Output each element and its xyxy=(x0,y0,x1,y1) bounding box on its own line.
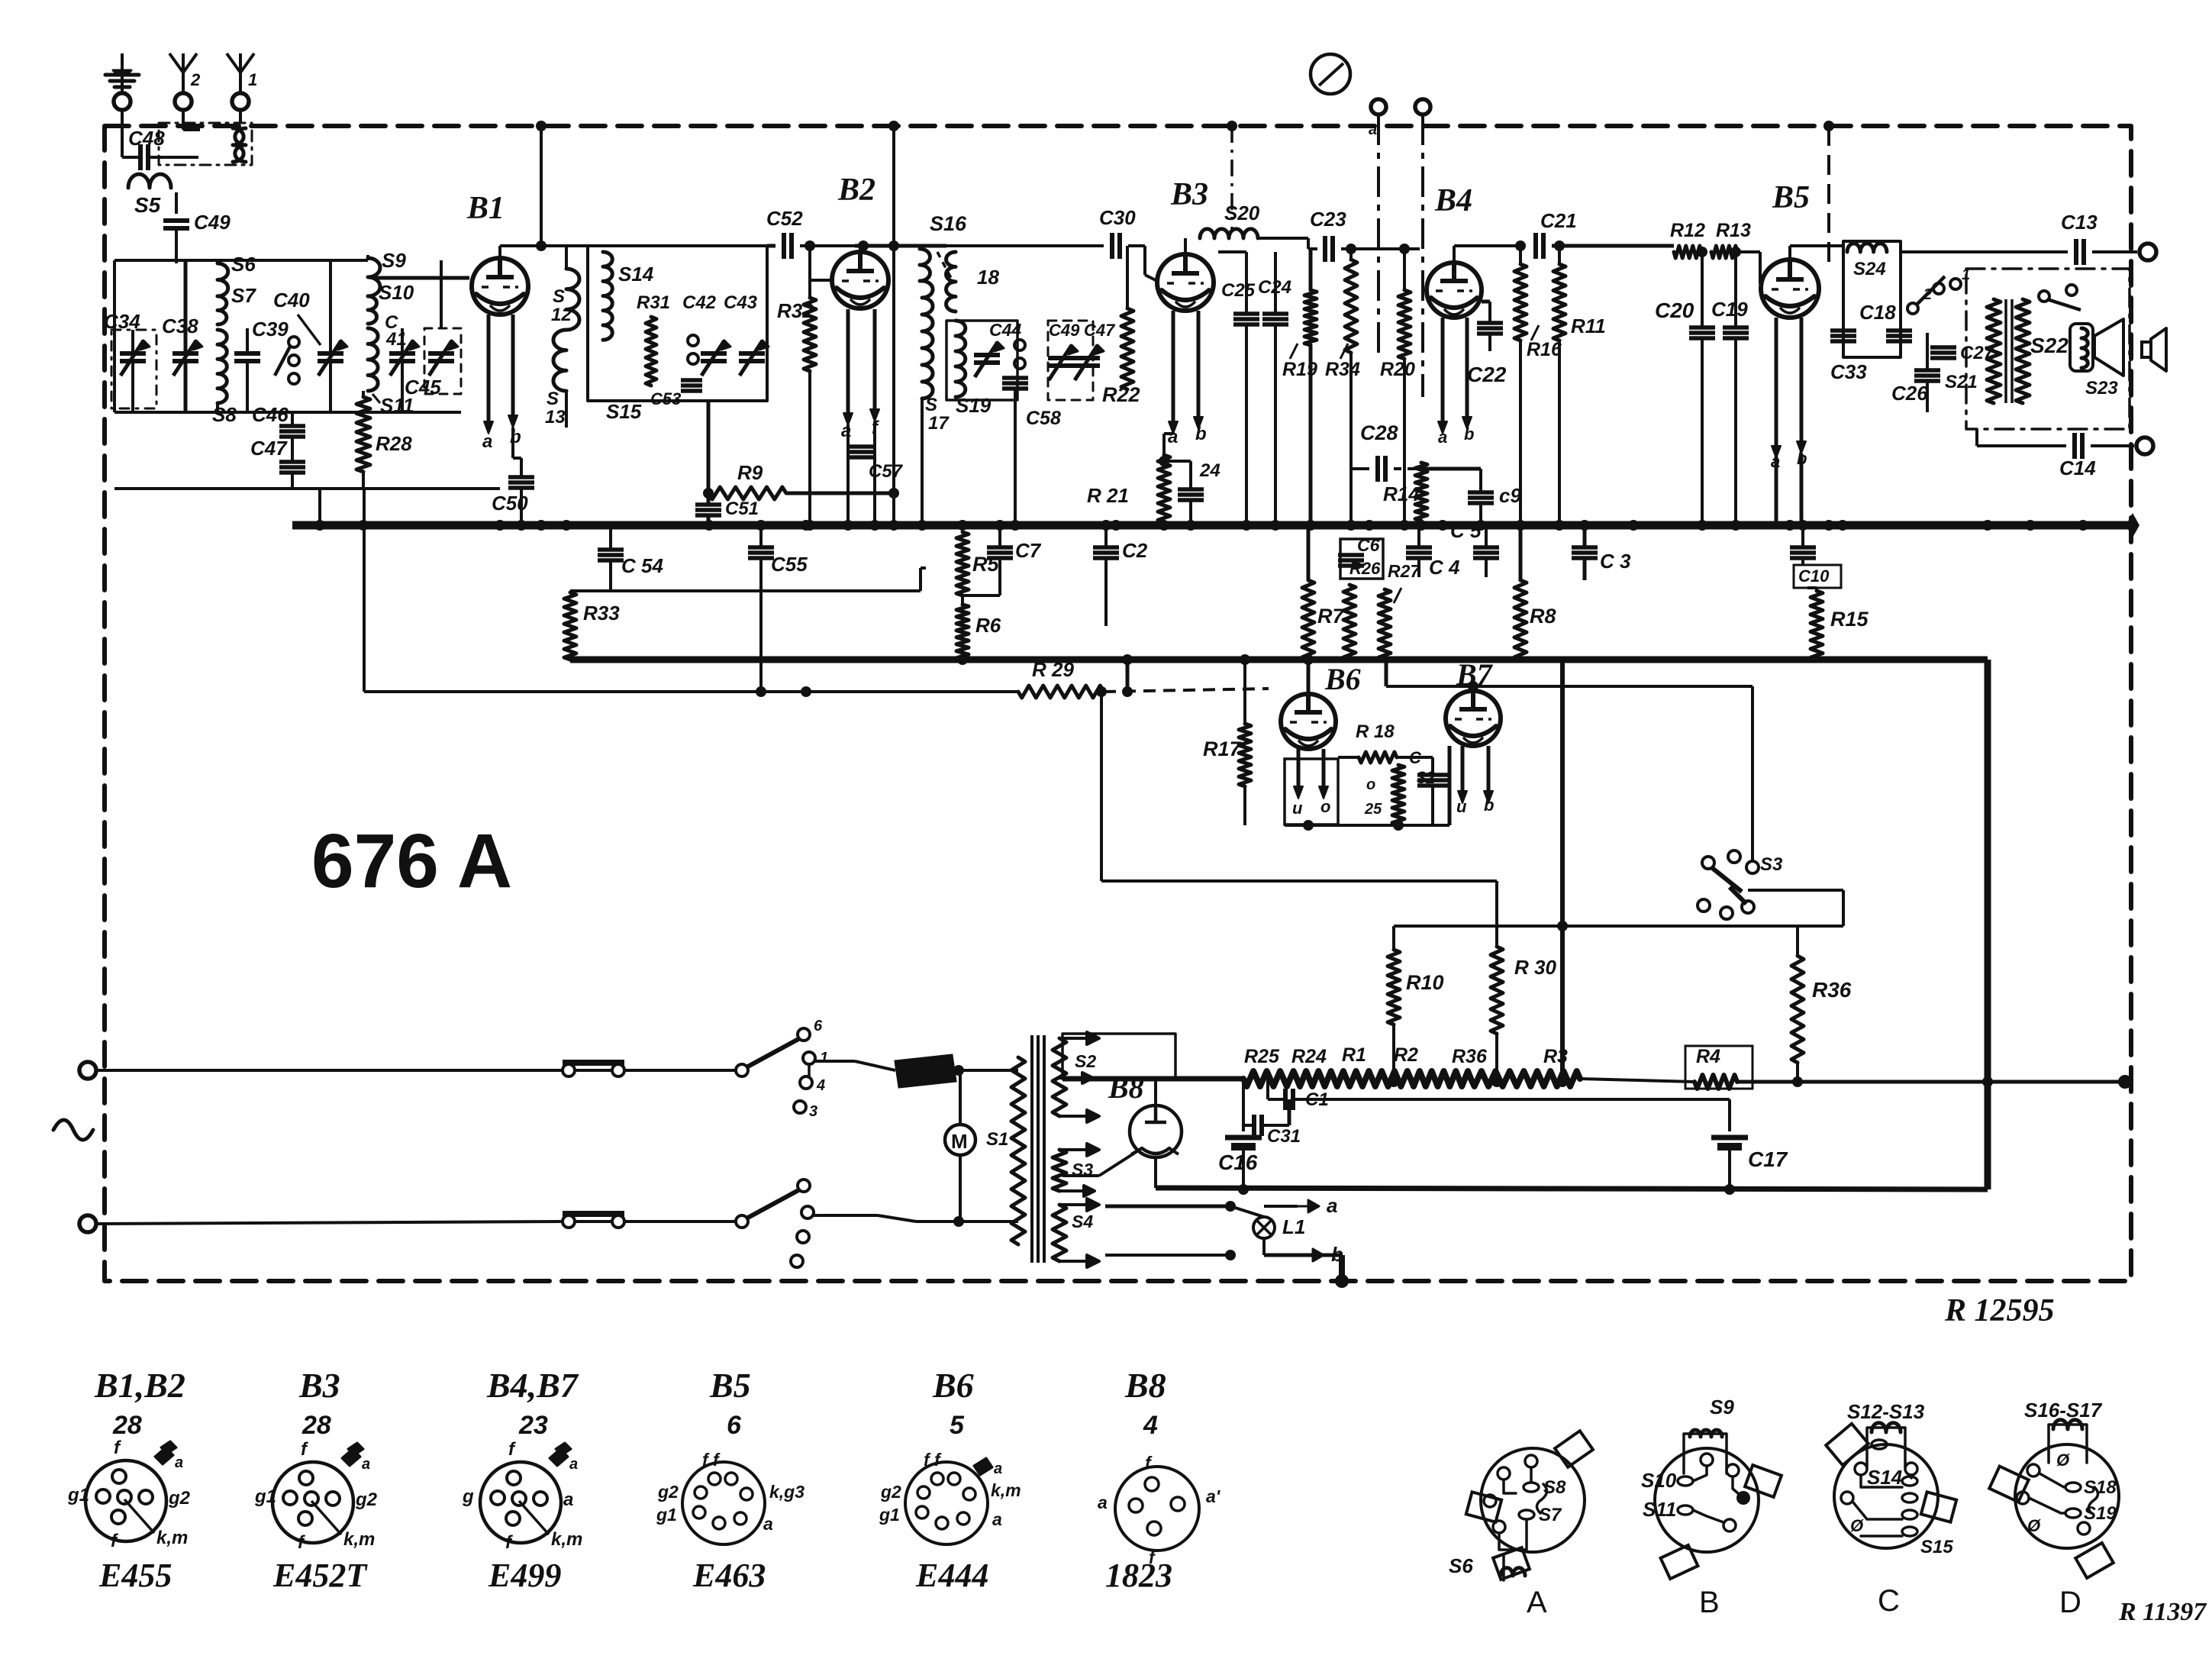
svg-text:5: 5 xyxy=(950,1411,965,1440)
capacitor C53 xyxy=(681,378,702,382)
B6 socket box xyxy=(1285,759,1338,825)
resistor R4 xyxy=(1694,1075,1737,1089)
svg-text:R 18: R 18 xyxy=(1356,721,1395,742)
svg-text:S23: S23 xyxy=(2085,378,2118,399)
dashed trimmer box C49 C47 xyxy=(1048,321,1093,400)
svg-text:Ø: Ø xyxy=(1850,1516,1864,1535)
svg-text:k,m: k,m xyxy=(991,1480,1021,1500)
capacitor C33 xyxy=(1830,328,1856,333)
svg-text:B1,B2: B1,B2 xyxy=(94,1366,185,1405)
svg-text:3: 3 xyxy=(809,1103,817,1120)
wire down from R29 xyxy=(1100,692,1103,881)
svg-text:S24: S24 xyxy=(1853,259,1886,279)
variable capacitor C38 xyxy=(173,351,198,356)
svg-text:S19: S19 xyxy=(956,394,992,417)
coil S11 xyxy=(368,328,378,391)
wire A2 down xyxy=(182,110,185,130)
svg-text:b: b xyxy=(1464,424,1474,444)
output IF box S24 xyxy=(1843,241,1901,357)
svg-text:R 29: R 29 xyxy=(1032,658,1074,681)
resistor R20 xyxy=(1398,290,1411,359)
svg-text:R33: R33 xyxy=(583,602,620,624)
svg-text:R 30: R 30 xyxy=(1514,956,1556,979)
B4 heater lead a xyxy=(1441,318,1445,424)
svg-text:S9: S9 xyxy=(382,249,406,272)
svg-text:S9: S9 xyxy=(1710,1396,1734,1418)
wire C48 to antenna coupling unit xyxy=(148,156,198,159)
capacitor C58 xyxy=(1002,376,1028,380)
wire R4 to border xyxy=(1737,1080,2125,1084)
svg-text:B5: B5 xyxy=(709,1366,751,1405)
wire switch2 to transformer xyxy=(812,1214,878,1217)
svg-text:C38: C38 xyxy=(162,315,198,337)
svg-text:g2: g2 xyxy=(657,1482,679,1502)
svg-text:C50: C50 xyxy=(492,492,528,515)
capacitor C21 xyxy=(1533,233,1538,259)
svg-text:R25: R25 xyxy=(1244,1046,1280,1067)
svg-text:a: a xyxy=(563,1489,573,1510)
capacitor C7 xyxy=(987,545,1013,550)
mains wire bottom xyxy=(96,1221,563,1224)
svg-text:C25: C25 xyxy=(1221,280,1256,301)
fuse bottom xyxy=(563,1211,624,1217)
mains wire top xyxy=(96,1069,563,1072)
svg-text:R22: R22 xyxy=(1102,383,1140,406)
svg-text:g2: g2 xyxy=(355,1489,378,1510)
resistor R34 xyxy=(1345,260,1357,353)
svg-text:S14: S14 xyxy=(618,263,654,286)
switch in IF box xyxy=(688,335,698,346)
svg-text:u: u xyxy=(1456,797,1467,816)
coil S12 xyxy=(566,269,579,330)
svg-text:R10: R10 xyxy=(1406,971,1444,994)
resistor R13 xyxy=(1711,246,1737,258)
wire B3 anode xyxy=(1184,238,1187,254)
coil S20 xyxy=(1200,229,1258,238)
svg-text:R4: R4 xyxy=(1696,1046,1720,1067)
svg-text:C34: C34 xyxy=(104,310,140,333)
dial lamp L1 xyxy=(1253,1217,1275,1238)
ballast resistor xyxy=(895,1055,956,1087)
rectifier supply box xyxy=(1062,1034,1175,1079)
capacitor C27 xyxy=(1930,345,1956,350)
switch S3 xyxy=(1751,686,1754,861)
svg-text:C17: C17 xyxy=(1748,1147,1788,1171)
wafer A contacts xyxy=(1498,1467,1510,1480)
svg-text:a: a xyxy=(175,1454,183,1471)
svg-text:R28: R28 xyxy=(376,432,412,455)
antenna coupling coil xyxy=(233,128,243,162)
wire B2 grid xyxy=(810,279,832,282)
svg-text:E499: E499 xyxy=(488,1557,561,1594)
power transformer secondary S3 xyxy=(1053,1150,1066,1191)
dashed drop at B5 xyxy=(1827,126,1830,267)
socket B8 outline xyxy=(1115,1467,1199,1551)
resistor R32 xyxy=(804,298,816,371)
capacitor C57 xyxy=(846,424,850,525)
capacitor C17 electrolytic xyxy=(1728,1113,1731,1131)
svg-text:C20: C20 xyxy=(1655,299,1694,322)
switch S near B5 xyxy=(1916,276,1945,305)
socket B4B7 pins xyxy=(507,1471,521,1485)
wire fuse to switch top xyxy=(624,1069,737,1072)
resistor R17 xyxy=(1239,724,1251,786)
svg-text:S1: S1 xyxy=(986,1129,1008,1150)
svg-text:13: 13 xyxy=(545,407,566,428)
svg-text:S3: S3 xyxy=(1760,854,1783,875)
capacitor C52 xyxy=(782,233,786,259)
svg-text:2: 2 xyxy=(190,70,201,89)
wafer C contacts xyxy=(1855,1463,1867,1475)
coil S13 xyxy=(553,330,566,391)
B4 anode wire xyxy=(1453,246,1456,263)
svg-text:S14: S14 xyxy=(1867,1466,1903,1489)
B2 heater lead a xyxy=(846,309,850,416)
variable capacitor C45 (dashed) xyxy=(428,351,454,356)
resistor R36 xyxy=(1791,956,1804,1063)
svg-text:4: 4 xyxy=(1143,1411,1158,1440)
svg-text:C53: C53 xyxy=(650,389,681,408)
HT distribution bus xyxy=(292,521,2133,530)
resistor R8 xyxy=(1514,580,1527,660)
svg-text:a: a xyxy=(994,1460,1002,1477)
svg-text:R6: R6 xyxy=(975,614,1001,637)
capacitor C10 xyxy=(1790,545,1816,550)
resistor R22 xyxy=(1121,308,1133,389)
B1 heater lead a xyxy=(487,315,491,424)
svg-text:R2: R2 xyxy=(1394,1044,1418,1066)
svg-text:S16: S16 xyxy=(930,212,967,235)
svg-text:C52: C52 xyxy=(766,207,803,230)
svg-text:C47: C47 xyxy=(250,437,288,460)
svg-text:R16: R16 xyxy=(1527,339,1562,360)
svg-text:R36: R36 xyxy=(1812,978,1852,1002)
svg-text:B2: B2 xyxy=(837,173,875,208)
svg-text:C2: C2 xyxy=(1122,539,1148,562)
svg-text:R20: R20 xyxy=(1380,359,1415,380)
svg-text:A: A xyxy=(1527,1586,1547,1619)
svg-text:R26: R26 xyxy=(1349,559,1381,578)
svg-text:E444: E444 xyxy=(915,1557,988,1594)
wafer C outline xyxy=(1834,1444,1938,1548)
wafer B outline xyxy=(1655,1448,1759,1552)
svg-text:S16-S17: S16-S17 xyxy=(2024,1399,2103,1422)
socket B4B7 anode tag xyxy=(550,1449,568,1466)
svg-text:a: a xyxy=(362,1456,370,1473)
svg-text:S8: S8 xyxy=(212,403,237,426)
speaker cone S23 xyxy=(2094,319,2123,376)
ground terminal xyxy=(114,93,131,110)
svg-text:C: C xyxy=(1878,1584,1900,1618)
B7 heater lead b xyxy=(1487,746,1491,794)
resistor R30 xyxy=(1491,947,1503,1034)
svg-text:B1: B1 xyxy=(466,191,505,226)
B6 heater lead u xyxy=(1297,749,1301,789)
capacitor C16 electrolytic xyxy=(1242,1079,1245,1131)
coil S24 xyxy=(1847,244,1887,252)
svg-text:b: b xyxy=(1195,424,1207,444)
wire B7 anode xyxy=(1472,686,1475,691)
wire C49 down to RF block xyxy=(175,230,178,260)
capacitor C22 xyxy=(1477,321,1503,325)
capacitor C30 xyxy=(1110,233,1114,259)
B7 heater lead u xyxy=(1461,746,1465,794)
svg-text:4: 4 xyxy=(816,1077,825,1094)
svg-text:B6: B6 xyxy=(932,1366,974,1405)
resistor R5 xyxy=(956,532,969,595)
wire HT feed down to volume chain xyxy=(1560,660,1565,1082)
socket B3 pins xyxy=(299,1471,313,1485)
svg-text:B4,B7: B4,B7 xyxy=(486,1366,579,1405)
dash-dot drop from border to S20 xyxy=(1230,126,1233,231)
svg-text:R15: R15 xyxy=(1830,608,1869,631)
resistor R28 xyxy=(356,397,370,472)
variable capacitor C42 xyxy=(701,351,727,356)
svg-text:S: S xyxy=(553,286,565,307)
svg-text:R 21: R 21 xyxy=(1087,484,1129,507)
power transformer core xyxy=(1030,1035,1033,1263)
IF transformer box S14 S15 xyxy=(588,246,767,401)
svg-text:a: a xyxy=(763,1514,773,1534)
capacitor C3 xyxy=(1572,545,1598,550)
variable capacitor C49b xyxy=(1048,356,1074,360)
capacitor C19 xyxy=(1723,325,1749,330)
svg-text:C43: C43 xyxy=(724,292,758,313)
wire ground to C48 xyxy=(121,110,124,157)
svg-text:C13: C13 xyxy=(2061,211,2098,234)
socket B6 anode tag xyxy=(974,1458,992,1475)
svg-text:R8: R8 xyxy=(1530,605,1556,628)
svg-text:k,g3: k,g3 xyxy=(769,1482,805,1502)
svg-text:R9: R9 xyxy=(737,461,763,484)
capacitor C54 xyxy=(598,547,624,552)
coil S18 xyxy=(946,252,956,311)
antenna A2 terminal xyxy=(175,93,192,110)
wires around output box xyxy=(1901,250,1966,253)
pickup leads down xyxy=(1377,115,1380,359)
resistor R6 xyxy=(956,605,969,660)
pickup terminal b xyxy=(1415,99,1430,115)
svg-text:g1: g1 xyxy=(67,1485,89,1505)
coil S17 xyxy=(922,281,933,399)
wafer D wires xyxy=(2039,1473,2065,1487)
socket B4B7 outline xyxy=(480,1462,561,1543)
svg-text:C26: C26 xyxy=(1891,382,1928,405)
variable capacitor C47b xyxy=(1074,356,1100,360)
svg-text:C 4: C 4 xyxy=(1429,556,1460,579)
svg-text:676 A: 676 A xyxy=(311,818,512,904)
socket B5 pins xyxy=(708,1473,721,1485)
capacitor C49 xyxy=(163,218,189,223)
wafer A switch wires xyxy=(1504,1480,1516,1493)
chassis dashed border xyxy=(105,126,2131,1281)
mains switch bottom xyxy=(736,1215,748,1228)
antenna coupling transformer box xyxy=(159,123,252,165)
svg-text:S11: S11 xyxy=(1643,1498,1676,1521)
svg-text:a: a xyxy=(569,1456,578,1473)
coil S19 xyxy=(956,321,966,397)
resistor R21 xyxy=(1158,455,1170,522)
resistor R35 xyxy=(1392,765,1404,825)
coil S10 xyxy=(368,296,377,324)
wire AVC rail xyxy=(364,690,1018,693)
resistor R15 xyxy=(1811,591,1823,660)
switch S22 top xyxy=(2039,291,2049,302)
svg-text:23: 23 xyxy=(518,1411,548,1440)
svg-text:S21: S21 xyxy=(1945,372,1978,392)
coil S8 xyxy=(218,330,227,403)
svg-text:B5: B5 xyxy=(1772,180,1810,215)
svg-text:R24: R24 xyxy=(1291,1046,1327,1067)
thick vertical right xyxy=(1985,660,1991,1189)
svg-text:S: S xyxy=(547,389,559,409)
wafer B contacts xyxy=(1701,1454,1713,1466)
svg-text:g1: g1 xyxy=(879,1505,900,1525)
B2 heater lead f xyxy=(873,309,877,412)
variable capacitor of C40 xyxy=(318,351,343,356)
wire B1 grid from S9 xyxy=(376,276,469,280)
svg-text:S7: S7 xyxy=(231,284,256,307)
IF2 box xyxy=(946,321,1017,400)
speaker icon right xyxy=(2151,328,2166,371)
svg-text:S12-S13: S12-S13 xyxy=(1847,1400,1925,1423)
mains sine symbol xyxy=(53,1120,93,1140)
svg-text:C51: C51 xyxy=(725,499,759,519)
wire S5 to C49 xyxy=(175,192,178,214)
socket B8 pins xyxy=(1145,1477,1159,1491)
svg-text:17: 17 xyxy=(928,413,950,434)
svg-text:S4: S4 xyxy=(1072,1212,1093,1231)
capacitor C9 xyxy=(1468,490,1494,495)
svg-text:a': a' xyxy=(1206,1486,1221,1506)
svg-text:a: a xyxy=(1369,121,1377,138)
capacitor C31 xyxy=(1252,1115,1256,1136)
wire S8 bottom to rail xyxy=(216,403,219,412)
svg-text:a: a xyxy=(1098,1493,1108,1512)
antenna A1 symbol xyxy=(239,69,242,93)
trimmer capacitor C39 xyxy=(234,351,260,356)
HT+ heavy wire to potentiometer chain xyxy=(1062,1076,1243,1082)
screen bus (thick) xyxy=(570,657,1988,663)
svg-text:b: b xyxy=(1484,796,1494,815)
wire from top border to B1 xyxy=(536,121,547,131)
resistor R11 xyxy=(1553,264,1565,340)
svg-text:B: B xyxy=(1699,1586,1720,1619)
B4 heater lead b xyxy=(1466,318,1469,420)
coil S7 xyxy=(218,296,227,324)
potentiometer chain R25 R24 R1 R2 R36 R3 xyxy=(1243,1071,1297,1086)
svg-text:C30: C30 xyxy=(1099,206,1136,229)
mains switch top xyxy=(736,1064,748,1076)
B3 heater lead a xyxy=(1172,311,1175,424)
coil S6 xyxy=(218,263,228,296)
wafer A outline xyxy=(1481,1448,1585,1552)
dashed AVC continuation xyxy=(1104,689,1269,692)
S2 taps xyxy=(1059,1032,1099,1044)
output transformer dash-dot box xyxy=(1966,269,2130,429)
svg-text:C49: C49 xyxy=(194,211,231,234)
coil S5 xyxy=(128,174,171,188)
resistor R29 xyxy=(1018,686,1104,698)
svg-text:18: 18 xyxy=(977,266,999,289)
svg-text:R7: R7 xyxy=(1317,605,1345,628)
svg-text:C46: C46 xyxy=(252,403,289,426)
socket B6 outline xyxy=(905,1462,988,1544)
wire switch to ballast xyxy=(814,1060,855,1063)
lamp feed b xyxy=(1105,1254,1230,1257)
svg-text:g1: g1 xyxy=(656,1505,677,1525)
resistor R9 xyxy=(708,487,786,499)
wire top rail of aerial tuned block xyxy=(114,259,368,262)
B1 heater lead b xyxy=(511,315,515,418)
socket B1B2 anode tag xyxy=(155,1447,173,1464)
capacitor C26 xyxy=(1914,368,1940,373)
svg-text:f f: f f xyxy=(924,1450,942,1470)
earth heavy rail xyxy=(1156,1188,1988,1189)
wire x1477 from screen bus xyxy=(1126,660,1130,692)
capacitor C51 xyxy=(695,502,721,507)
resistor R12 xyxy=(1674,246,1701,258)
antenna A2 symbol xyxy=(182,69,185,93)
svg-text:R3: R3 xyxy=(1543,1046,1568,1067)
svg-text:D: D xyxy=(2059,1586,2081,1619)
wafer D outline xyxy=(2015,1444,2119,1548)
resistor R18 xyxy=(1359,752,1397,763)
wire bottom rail of aerial block xyxy=(114,411,185,414)
svg-text:C6: C6 xyxy=(1357,535,1380,555)
svg-text:k,m: k,m xyxy=(551,1529,582,1550)
output terminal bottom xyxy=(2136,437,2153,454)
svg-text:S6: S6 xyxy=(231,253,256,276)
svg-text:6: 6 xyxy=(814,1018,823,1034)
svg-text:a: a xyxy=(1327,1194,1337,1217)
svg-text:c9: c9 xyxy=(1499,484,1521,507)
speaker coil S22 xyxy=(2070,324,2093,371)
coil S14 xyxy=(603,252,612,340)
svg-text:B3: B3 xyxy=(1170,177,1208,212)
svg-text:R17: R17 xyxy=(1203,737,1243,760)
svg-text:C23: C23 xyxy=(1310,208,1346,231)
svg-text:R11: R11 xyxy=(1571,315,1606,337)
capacitor C55 xyxy=(748,545,774,550)
svg-text:a: a xyxy=(482,431,492,452)
lamp feed a xyxy=(1105,1205,1230,1209)
capacitor C6 box xyxy=(1340,539,1383,579)
resistor R33 xyxy=(564,592,576,660)
svg-text:a: a xyxy=(992,1509,1002,1529)
capacitor C48 xyxy=(138,144,143,170)
power transformer secondary S4 xyxy=(1053,1205,1066,1261)
B6 heater lead o xyxy=(1322,749,1326,789)
svg-text:B8: B8 xyxy=(1124,1366,1166,1405)
svg-text:C55: C55 xyxy=(771,553,808,576)
wire B1 anode to HT rail xyxy=(498,246,501,258)
svg-text:R 11397: R 11397 xyxy=(2118,1598,2207,1626)
capacitor C50 xyxy=(508,475,534,479)
svg-text:g1: g1 xyxy=(254,1486,276,1507)
svg-text:C19: C19 xyxy=(1711,298,1748,321)
tuning scale lamp xyxy=(1311,54,1350,94)
svg-text:S2: S2 xyxy=(1075,1051,1096,1071)
svg-text:C16: C16 xyxy=(1218,1150,1258,1174)
wire top border drop to B2/S16 xyxy=(888,121,899,131)
svg-text:R31: R31 xyxy=(637,292,670,313)
capacitor C28 xyxy=(1375,456,1380,482)
capacitor C47 xyxy=(279,460,305,464)
svg-text:C44: C44 xyxy=(989,320,1021,340)
svg-text:C22: C22 xyxy=(1467,363,1507,386)
svg-text:R12: R12 xyxy=(1670,220,1705,241)
